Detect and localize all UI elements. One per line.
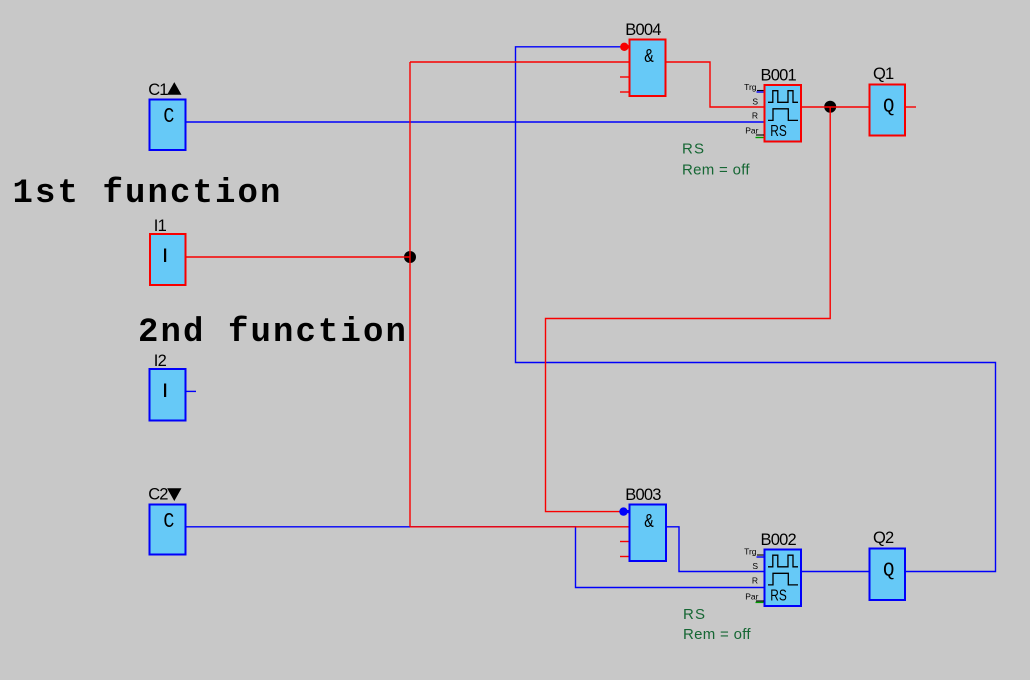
svg-text:I2: I2 [154,352,167,370]
block Q1 output [870,85,906,136]
svg-text:C: C [163,106,174,129]
wire I1 output to junction [186,256,410,258]
svg-text:2nd function: 2nd function [138,314,408,352]
block B001 pulse relay RS [765,85,802,142]
pin label Trg of B001 [744,82,763,92]
text 1st function [13,175,283,213]
wire junction vertical rail [409,62,411,527]
wire B002 output to Q2 input [801,571,870,573]
label B003 [625,486,661,504]
label C1 [148,81,181,99]
svg-text:RS: RS [770,588,787,605]
wire B003 input 4 stub [620,556,629,558]
pin label S of B001 [752,97,758,107]
svg-text:Q: Q [883,559,894,581]
svg-text:C: C [163,511,174,534]
svg-text:R: R [752,111,758,121]
svg-text:RS: RS [770,123,787,140]
wire C2 output to B002 R input [186,527,765,588]
wire B001 output to Q1 input [801,106,870,108]
svg-text:&: & [644,511,654,533]
wire B004 input 4 stub [620,91,629,93]
svg-text:1st function: 1st function [13,175,283,213]
block I2 digital input [150,369,186,421]
wire Q2 output feedback to B004 input 1 [516,47,996,572]
wire I2 output stub [186,390,197,392]
node junction on I1 wire [404,251,416,263]
wire B002 Par stub [756,601,765,603]
svg-text:Rem = off: Rem = off [683,626,751,643]
text RS parameter of B001 [682,141,705,158]
pin label Trg of B002 [744,547,763,557]
block B004 AND gate [630,40,666,97]
svg-text:Par: Par [745,126,758,136]
label Q1 [873,65,894,83]
label B002 [761,531,797,549]
block I1 digital input [150,234,186,285]
block Q2 output [870,549,906,601]
node junction on B001 output [824,101,836,113]
pin label S of B002 [752,561,758,571]
text RS parameter of B002 [683,606,706,623]
svg-text:C2: C2 [148,486,168,504]
block C1 cursor key input [150,100,186,151]
svg-text:RS: RS [682,141,705,158]
svg-text:Trg: Trg [744,82,757,92]
label I1 [154,217,167,235]
wire rail to B004 input 2 [410,61,630,63]
wire B003 output to B002 S input [666,527,765,572]
block B003 AND gate [630,505,667,562]
wire Q1 output stub [906,106,917,108]
svg-text:I1: I1 [154,217,167,235]
wire B001 output branch to B003 input 1 [546,107,831,512]
wire B004 input 3 stub [620,76,629,78]
wire B003 input 3 stub [620,541,629,543]
svg-text:B002: B002 [761,531,797,549]
block C2 cursor key input [150,505,186,555]
svg-text:B001: B001 [761,67,797,85]
svg-text:C1: C1 [148,81,168,99]
text Rem = off parameter of B001 [682,162,750,179]
svg-text:Rem = off: Rem = off [682,162,750,179]
node dot at B004 input 1 [620,43,630,51]
svg-text:S: S [752,561,758,571]
label Q2 [873,529,894,547]
svg-text:Par: Par [745,592,758,602]
node dot at B003 input 1 [619,507,630,515]
svg-text:&: & [644,46,654,68]
wire B002 Trg stub [757,556,765,558]
wire B004 output to B001 S input [666,62,765,107]
label C2 [148,486,181,504]
text Rem = off parameter of B002 [683,626,751,643]
svg-text:Q2: Q2 [873,529,894,547]
label B001 [761,67,797,85]
block B002 pulse relay RS [765,550,802,607]
svg-text:Q: Q [883,95,894,117]
svg-text:B004: B004 [625,21,661,39]
svg-text:RS: RS [683,606,706,623]
wire rail to B003 input 2 [410,526,630,528]
wire B001 Par stub [756,137,765,139]
pin label R of B001 [752,111,758,121]
wire C1 output to B001 R input [186,121,765,123]
text 2nd function [138,314,408,352]
svg-text:Q1: Q1 [873,65,894,83]
label I2 [154,352,167,370]
svg-text:R: R [752,576,758,586]
svg-text:S: S [752,97,758,107]
pin label Par of B001 [745,126,764,136]
svg-text:Trg: Trg [744,547,757,557]
svg-text:B003: B003 [625,486,661,504]
label B004 [625,21,661,39]
pin label R of B002 [752,576,758,586]
pin label Par of B002 [745,592,764,602]
wire B001 Trg stub [757,91,765,93]
